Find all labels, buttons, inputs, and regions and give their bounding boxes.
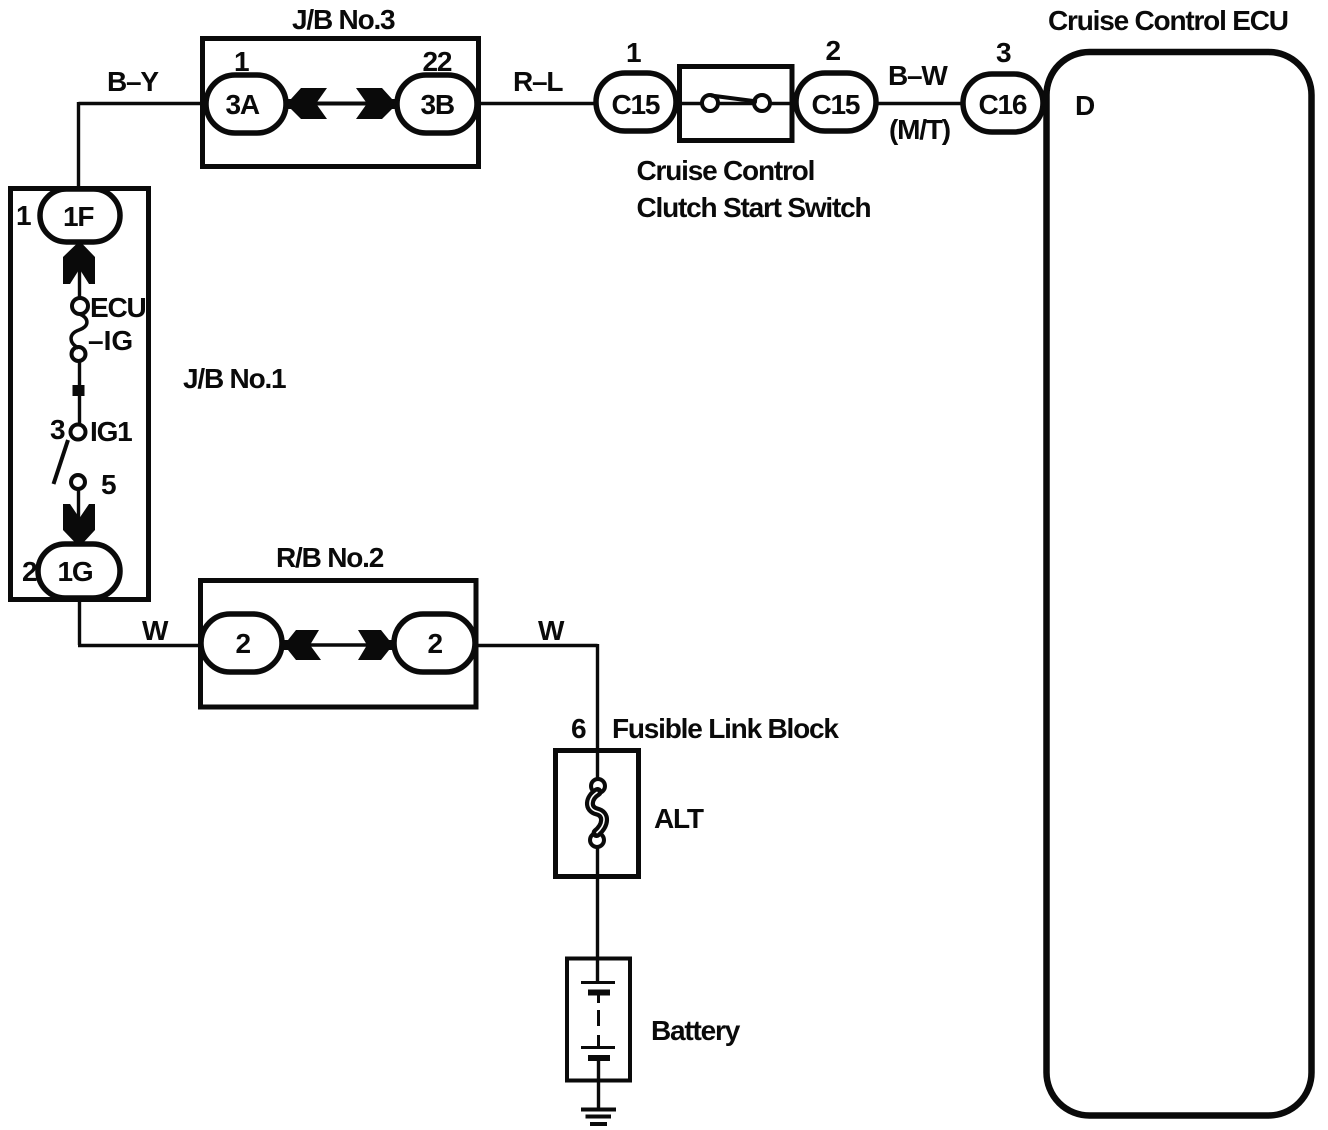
svg-text:C15: C15 <box>612 89 660 120</box>
svg-text:1: 1 <box>16 200 31 231</box>
svg-text:2: 2 <box>826 35 841 66</box>
svg-text:1F: 1F <box>63 201 94 232</box>
svg-text:2: 2 <box>428 628 443 659</box>
svg-text:J/B No.1: J/B No.1 <box>183 363 286 394</box>
svg-text:3A: 3A <box>226 89 260 120</box>
svg-text:22: 22 <box>423 46 452 77</box>
svg-text:3: 3 <box>996 37 1011 68</box>
svg-text:ALT: ALT <box>654 803 704 834</box>
svg-text:IG1: IG1 <box>90 416 132 447</box>
svg-text:1: 1 <box>626 37 641 68</box>
svg-text:1: 1 <box>234 46 249 77</box>
svg-text:Cruise Control: Cruise Control <box>637 155 815 186</box>
svg-text:Battery: Battery <box>651 1015 741 1046</box>
svg-text:6: 6 <box>571 713 586 744</box>
svg-text:3: 3 <box>50 414 65 445</box>
svg-text:ECU: ECU <box>90 292 146 323</box>
svg-text:1G: 1G <box>58 556 93 587</box>
svg-text:B–Y: B–Y <box>107 66 159 97</box>
svg-text:–IG: –IG <box>88 325 133 356</box>
svg-text:2: 2 <box>236 628 251 659</box>
svg-text:Fusible Link Block: Fusible Link Block <box>612 713 839 744</box>
svg-text:(M/T): (M/T) <box>889 114 950 145</box>
svg-text:J/B No.3: J/B No.3 <box>292 4 395 35</box>
svg-text:D: D <box>1075 90 1095 121</box>
svg-text:C15: C15 <box>812 89 860 120</box>
svg-text:3B: 3B <box>421 89 454 120</box>
svg-text:W: W <box>142 615 169 646</box>
svg-text:2: 2 <box>22 556 37 587</box>
svg-text:Clutch Start Switch: Clutch Start Switch <box>637 192 871 223</box>
svg-text:R/B No.2: R/B No.2 <box>276 542 384 573</box>
svg-text:R–L: R–L <box>513 66 563 97</box>
svg-text:5: 5 <box>101 469 116 500</box>
svg-text:Cruise Control ECU: Cruise Control ECU <box>1048 5 1288 36</box>
svg-text:C16: C16 <box>979 89 1027 120</box>
svg-text:W: W <box>538 615 565 646</box>
svg-text:B–W: B–W <box>888 60 948 91</box>
